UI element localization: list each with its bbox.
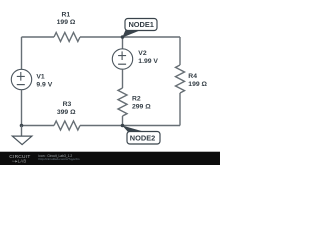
node NODE1 callout (122, 19, 157, 38)
svg-text:R4: R4 (188, 73, 197, 80)
svg-text:V1: V1 (36, 74, 45, 81)
resistor R2 (118, 88, 151, 116)
wire middle branch top (NODE1 junction to V2) (122, 37, 124, 49)
voltage source V1 (11, 69, 52, 89)
svg-text:V2: V2 (138, 50, 147, 57)
svg-text:http://circuitlab.com/c/7qye3m: http://circuitlab.com/c/7qye3m (39, 157, 80, 161)
resistor R4 (176, 65, 208, 93)
resistor R1 (54, 12, 80, 42)
wire left branch lower (V1 to bottom junction) (21, 90, 23, 126)
svg-text:R2: R2 (132, 96, 141, 103)
svg-text:199 Ω: 199 Ω (57, 19, 76, 26)
wire top-left horizontal segment (22, 36, 55, 38)
svg-text:NODE2: NODE2 (130, 134, 155, 143)
wire left branch upper (top wire to V1) (21, 37, 23, 69)
wire top-right horizontal segment (80, 36, 180, 38)
wire bottom-left horizontal segment (22, 125, 55, 127)
voltage source V2 (112, 49, 158, 69)
svg-text:399 Ω: 399 Ω (57, 109, 76, 116)
svg-text:9.9 V: 9.9 V (36, 81, 52, 88)
wire right branch bottom (R4 to bottom wire) (179, 93, 181, 126)
footer title text (39, 154, 80, 161)
svg-text:R1: R1 (61, 12, 70, 19)
node NODE2 callout (122, 126, 160, 144)
junction dot at NODE1 (121, 35, 125, 39)
resistor R3 (54, 101, 80, 130)
junction dot at NODE2 (121, 124, 125, 128)
svg-text:NODE1: NODE1 (128, 20, 153, 29)
svg-text:299 Ω: 299 Ω (132, 104, 151, 111)
svg-text:1.99 V: 1.99 V (138, 58, 158, 65)
svg-text:199 Ω: 199 Ω (188, 81, 207, 88)
wire right branch top (top wire to R4) (179, 37, 181, 65)
footer bar (0, 152, 220, 165)
wire middle branch bottom (R2 to NODE2 junction) (122, 116, 124, 126)
wire bottom-right horizontal segment (80, 125, 180, 127)
footer CircuitLab logo (9, 154, 30, 163)
wire middle branch (V2 to R2) (122, 69, 124, 88)
ground (12, 126, 32, 145)
svg-text:∼▸LAB: ∼▸LAB (12, 158, 27, 163)
svg-text:R3: R3 (63, 101, 72, 108)
junction dot at ground node (20, 124, 24, 128)
